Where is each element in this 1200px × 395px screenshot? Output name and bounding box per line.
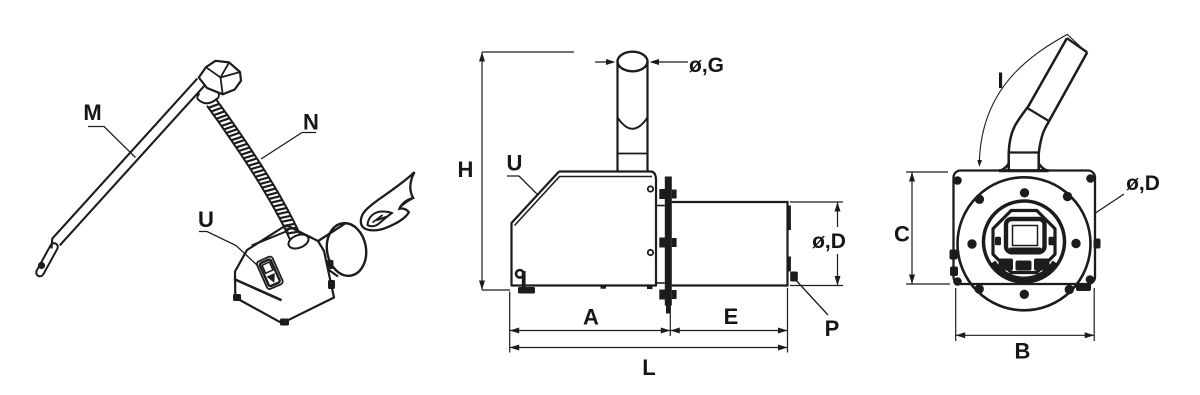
dimension L xyxy=(510,347,788,349)
flame inner curls xyxy=(368,211,392,226)
hose collar at burner xyxy=(286,232,310,252)
body right edge bolts xyxy=(648,186,653,191)
dimension E xyxy=(778,328,788,334)
pipe base flare xyxy=(1001,163,1048,171)
H bottom extension xyxy=(482,289,510,291)
auger tube M xyxy=(60,85,205,245)
svg-text:H: H xyxy=(458,157,474,182)
pipe seams xyxy=(1009,151,1039,153)
svg-text:N: N xyxy=(303,109,319,134)
flange bolts xyxy=(659,189,665,199)
svg-text:A: A xyxy=(583,304,599,329)
hose collar at motor xyxy=(197,98,218,104)
dimension A/E/L extension lines xyxy=(509,292,511,353)
burner unit U (3d box) xyxy=(235,226,334,323)
burner box edge clips xyxy=(327,260,334,269)
burner barrel (left view cylinder) xyxy=(318,224,346,242)
dimension C xyxy=(911,172,913,284)
svg-text:U: U xyxy=(198,207,214,232)
feed tube seam xyxy=(618,153,648,155)
svg-text:C: C xyxy=(894,221,910,246)
dimension oG arrows xyxy=(595,61,613,63)
leader M xyxy=(88,127,136,158)
mounting flange (middle) xyxy=(665,177,672,306)
body foot (left) xyxy=(516,270,524,278)
dimension oD (middle) line xyxy=(837,202,839,227)
body-flange connectors xyxy=(656,205,665,207)
leader I xyxy=(979,34,1085,163)
svg-text:M: M xyxy=(83,100,101,125)
leader N xyxy=(261,133,316,160)
svg-text:I: I xyxy=(997,68,1003,93)
plate side clips xyxy=(950,250,958,260)
leader U (middle) xyxy=(507,176,538,195)
feed tube top ellipse xyxy=(618,52,648,72)
flame xyxy=(361,172,415,230)
plate corner screws xyxy=(953,176,962,185)
auger gearmotor xyxy=(199,61,241,95)
pipe end cut xyxy=(1067,38,1087,52)
outer flange circle xyxy=(958,177,1091,310)
svg-text:ø,D: ø,D xyxy=(812,230,846,253)
body top plate double line xyxy=(559,172,656,180)
inner bold octagon xyxy=(993,211,1055,273)
brand text marks xyxy=(999,259,1014,271)
svg-text:ø,G: ø,G xyxy=(689,54,724,77)
burner body (middle) xyxy=(512,172,657,286)
inner bold circle xyxy=(984,201,1065,282)
svg-text:B: B xyxy=(1015,338,1031,363)
control panel on burner xyxy=(256,256,284,290)
auger end bearing xyxy=(38,262,45,269)
flexible hose N xyxy=(216,99,300,235)
dark lower band of bold circle xyxy=(993,263,1056,281)
square side tabs xyxy=(995,237,1001,245)
svg-text:E: E xyxy=(724,304,739,329)
burner tube barrel (middle) xyxy=(672,202,788,286)
burner box feet xyxy=(280,319,289,326)
auger tube end section xyxy=(40,247,54,273)
mounting plate (right view) xyxy=(954,171,1096,285)
flange bolts (right view) xyxy=(975,195,984,204)
dimension A xyxy=(510,330,671,332)
svg-text:U: U xyxy=(507,150,523,175)
dimension oD (middle) extensions xyxy=(790,201,843,203)
feed tube lower arc xyxy=(618,118,648,129)
feed tube (middle) xyxy=(616,62,618,172)
flue pipe (right view) xyxy=(1009,38,1067,171)
body foot ticks xyxy=(601,286,607,289)
svg-text:P: P xyxy=(825,316,840,341)
dimension B xyxy=(955,288,957,341)
barrel end details xyxy=(788,206,791,231)
dimension H xyxy=(481,52,483,290)
leader P xyxy=(793,277,829,316)
svg-text:ø,D: ø,D xyxy=(1126,172,1160,195)
H top extension xyxy=(482,51,574,53)
svg-text:L: L xyxy=(642,355,655,380)
center square port xyxy=(1006,219,1045,252)
leader oD (right) xyxy=(1094,194,1124,214)
leader U (left) xyxy=(199,232,258,267)
